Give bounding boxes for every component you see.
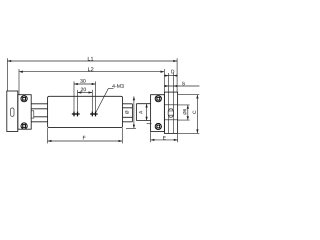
20 dimension bbox=[78, 92, 93, 94]
F arrows bbox=[48, 140, 52, 142]
30 arrows bbox=[74, 83, 78, 85]
C arrows bbox=[196, 95, 198, 99]
label dia8 bbox=[183, 109, 186, 115]
label F bbox=[83, 136, 86, 140]
body height dim arrows bbox=[133, 96, 135, 100]
slot in left plate bbox=[11, 108, 14, 116]
C dimension bbox=[196, 95, 198, 134]
boss right of body bbox=[123, 104, 133, 122]
30 dimension bbox=[74, 83, 96, 85]
dia10 arrows bbox=[187, 105, 189, 109]
screw bottom-right bbox=[155, 123, 161, 129]
20 arrows bbox=[78, 91, 82, 93]
right end plate bbox=[164, 92, 177, 133]
4-M3 leader bbox=[96, 89, 114, 113]
F dimension bbox=[48, 140, 123, 142]
left slider block bbox=[18, 95, 31, 130]
D arrows (outside, pointing inward) bbox=[165, 74, 169, 76]
E arrows bbox=[151, 139, 155, 141]
inner vertical lines of end plate bbox=[169, 92, 174, 133]
label dia-boss bbox=[125, 111, 128, 114]
L2 arrows bbox=[19, 71, 23, 73]
label L2 bbox=[88, 67, 93, 71]
hole crosses bbox=[72, 112, 98, 117]
rod end section bbox=[136, 104, 150, 121]
label S bbox=[182, 82, 185, 86]
body height dimension bbox=[133, 96, 135, 128]
screw top-left bbox=[21, 96, 27, 102]
dimension lines bbox=[7, 58, 199, 143]
label A bbox=[139, 111, 142, 114]
left mounting plate bbox=[7, 91, 18, 132]
label D bbox=[171, 70, 174, 73]
label C bbox=[193, 111, 196, 114]
dia10 dimension bbox=[187, 105, 189, 120]
S arrows bbox=[165, 85, 169, 87]
arrowheads bbox=[7, 60, 198, 142]
label L1 bbox=[88, 57, 93, 61]
label 30 bbox=[80, 79, 85, 83]
L1 arrows bbox=[7, 60, 11, 62]
label 4-M3 bbox=[112, 84, 123, 88]
A dim arrows bbox=[145, 104, 147, 108]
rod lines left bbox=[31, 104, 47, 122]
nut on end plate bbox=[168, 109, 173, 117]
D dimension bbox=[164, 75, 177, 77]
tab on left block bbox=[31, 111, 34, 118]
label E bbox=[163, 136, 166, 139]
A dimension line bbox=[146, 104, 148, 121]
inner horizontal lines of end plate bbox=[164, 105, 177, 120]
label 20 bbox=[81, 88, 86, 92]
L2 dimension bbox=[19, 71, 164, 73]
right slider block bbox=[151, 95, 165, 132]
S dimension bbox=[165, 85, 200, 87]
E dimension bbox=[151, 139, 178, 141]
main body bbox=[48, 96, 123, 127]
screw top-right bbox=[155, 96, 161, 102]
screw bottom-left bbox=[21, 123, 27, 129]
L1 dimension bbox=[7, 60, 177, 62]
